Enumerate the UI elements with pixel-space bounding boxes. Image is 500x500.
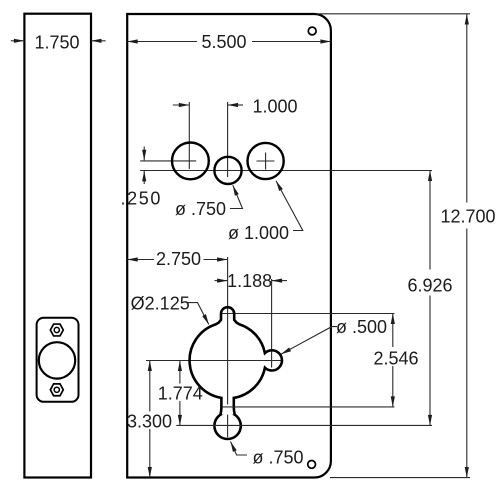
dimension .250	[143, 147, 145, 185]
scallop vertical centerline	[227, 257, 229, 437]
dimension 1.750	[11, 40, 106, 42]
svg-text:ø 1.000: ø 1.000	[228, 223, 289, 243]
main plate outline (rounded right corners)	[127, 14, 331, 478]
dimension 1.188	[215, 280, 288, 282]
neck mask	[222, 405, 234, 415]
tab center extension line	[222, 313, 394, 315]
small hole vertical extension	[271, 279, 273, 368]
centerline row A	[140, 160, 196, 162]
scallop cross-bore outline	[190, 307, 282, 415]
top extension line	[316, 13, 470, 15]
dimension 5.500	[127, 41, 331, 43]
svg-text:ø .750: ø .750	[252, 447, 303, 467]
hole circle right	[248, 143, 284, 179]
top hole extension lines	[189, 102, 227, 177]
svg-text:2.546: 2.546	[373, 348, 418, 368]
svg-text:1.774: 1.774	[158, 383, 203, 403]
latch faceplate detail	[37, 318, 79, 402]
hole circle left	[172, 143, 209, 180]
svg-text:ø .750: ø .750	[175, 199, 226, 219]
2.546 bottom reference line	[222, 406, 395, 408]
dimension 12.700	[466, 14, 468, 478]
svg-text:1.750: 1.750	[34, 32, 79, 52]
top hex screw	[50, 324, 63, 336]
scallop horizontal centerline	[146, 360, 282, 362]
bottom hole horizontal centerline	[176, 424, 432, 426]
dimension 3.300	[149, 361, 151, 478]
dimension 2.750	[127, 259, 227, 261]
svg-text:5.500: 5.500	[201, 32, 246, 52]
centerline row B (long)	[140, 170, 432, 172]
bottom screw hole	[308, 461, 316, 469]
latch circle	[39, 342, 75, 378]
dimension 1.000 (top)	[173, 104, 243, 106]
dimension 1.774	[179, 361, 181, 426]
bottom hex screw	[50, 384, 63, 396]
svg-text:1.188: 1.188	[227, 271, 272, 291]
svg-text:Ø2.125: Ø2.125	[131, 293, 190, 313]
bottom extension line	[330, 477, 470, 479]
svg-text:6.926: 6.926	[407, 275, 452, 295]
svg-text:3.300: 3.300	[127, 411, 172, 431]
svg-text:1.000: 1.000	[252, 97, 297, 117]
svg-text:2.750: 2.750	[156, 249, 201, 269]
top screw hole	[308, 27, 316, 35]
right circle cross	[257, 153, 275, 170]
dimension 2.546	[392, 314, 394, 407]
side plate outline	[24, 14, 91, 478]
svg-text:12.700: 12.700	[440, 206, 495, 226]
hole circle middle	[214, 157, 241, 184]
svg-text:ø .500: ø .500	[336, 317, 387, 337]
svg-text:.250: .250	[121, 189, 162, 209]
dimension 6.926	[429, 171, 431, 426]
scallop bottom hole circle	[214, 413, 240, 439]
